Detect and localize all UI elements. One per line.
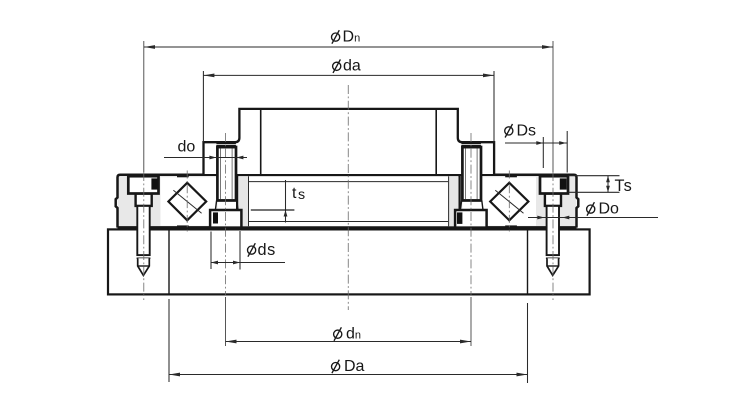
dimension øDs [505,122,568,172]
center line outer bolt right [552,41,554,300]
outer ring right outline [460,175,579,228]
roller right (crossed roller, diamond) [490,183,528,221]
bolt inner-left head [210,210,241,228]
center line inner bolt left [225,133,227,346]
svg-text:Do: Do [599,201,620,218]
center line roller right [508,171,510,232]
base joint line left [168,229,170,294]
upper structure inner edge left [260,110,262,174]
dimension øDn [144,29,553,49]
dimension Ts [569,176,633,195]
roller pocket right (white) [480,177,537,226]
roller right spacer top [505,174,517,177]
bolt inner-left thread engagement [216,143,236,147]
upper structure inner edge right [435,110,437,174]
dimension do (leader) [164,139,247,160]
outer ring left outline [116,175,237,228]
dimension øDa [169,299,528,383]
roller right spacer bottom [505,225,517,228]
outer ring right section (gray fill) [460,175,577,229]
svg-text:ts: ts [292,185,305,203]
svg-text:do: do [178,139,196,156]
bolt outer-right head [540,176,568,193]
roller left (crossed roller, diamond) [168,183,206,221]
dimension øDo (leader) [528,201,658,220]
center line inner bolt right [470,133,472,346]
base block [108,229,590,294]
upper structure outline [204,109,495,174]
dimension øda [203,58,494,143]
roller left spacer bottom [177,225,189,228]
bolt inner-left shaft [215,147,238,210]
base joint line right [527,229,529,294]
inner ring center band [237,175,460,228]
bolt outer-right shank [545,194,561,276]
roller left spacer top [177,174,189,177]
svg-text:Da: Da [344,358,365,375]
outer ring left section (gray fill) [118,175,238,229]
bolt outer-left shank [136,194,152,276]
svg-text:Ts: Ts [615,177,633,195]
svg-text:da: da [343,58,361,75]
roller pocket left (white) [161,177,218,226]
center line roller left [186,171,188,232]
svg-text:ds: ds [258,241,276,259]
bolt inner-right head [455,210,487,228]
bolt outer-left head [128,176,158,193]
svg-text:Ds: Ds [517,122,537,139]
bolt inner-right shaft [460,147,483,210]
dimension ødn [226,326,472,344]
dimension øds [211,231,285,270]
center line outer bolt left [143,41,145,300]
dimension ts [251,180,305,223]
center line main axis [347,85,349,310]
bolt inner-right thread engagement [461,143,481,147]
